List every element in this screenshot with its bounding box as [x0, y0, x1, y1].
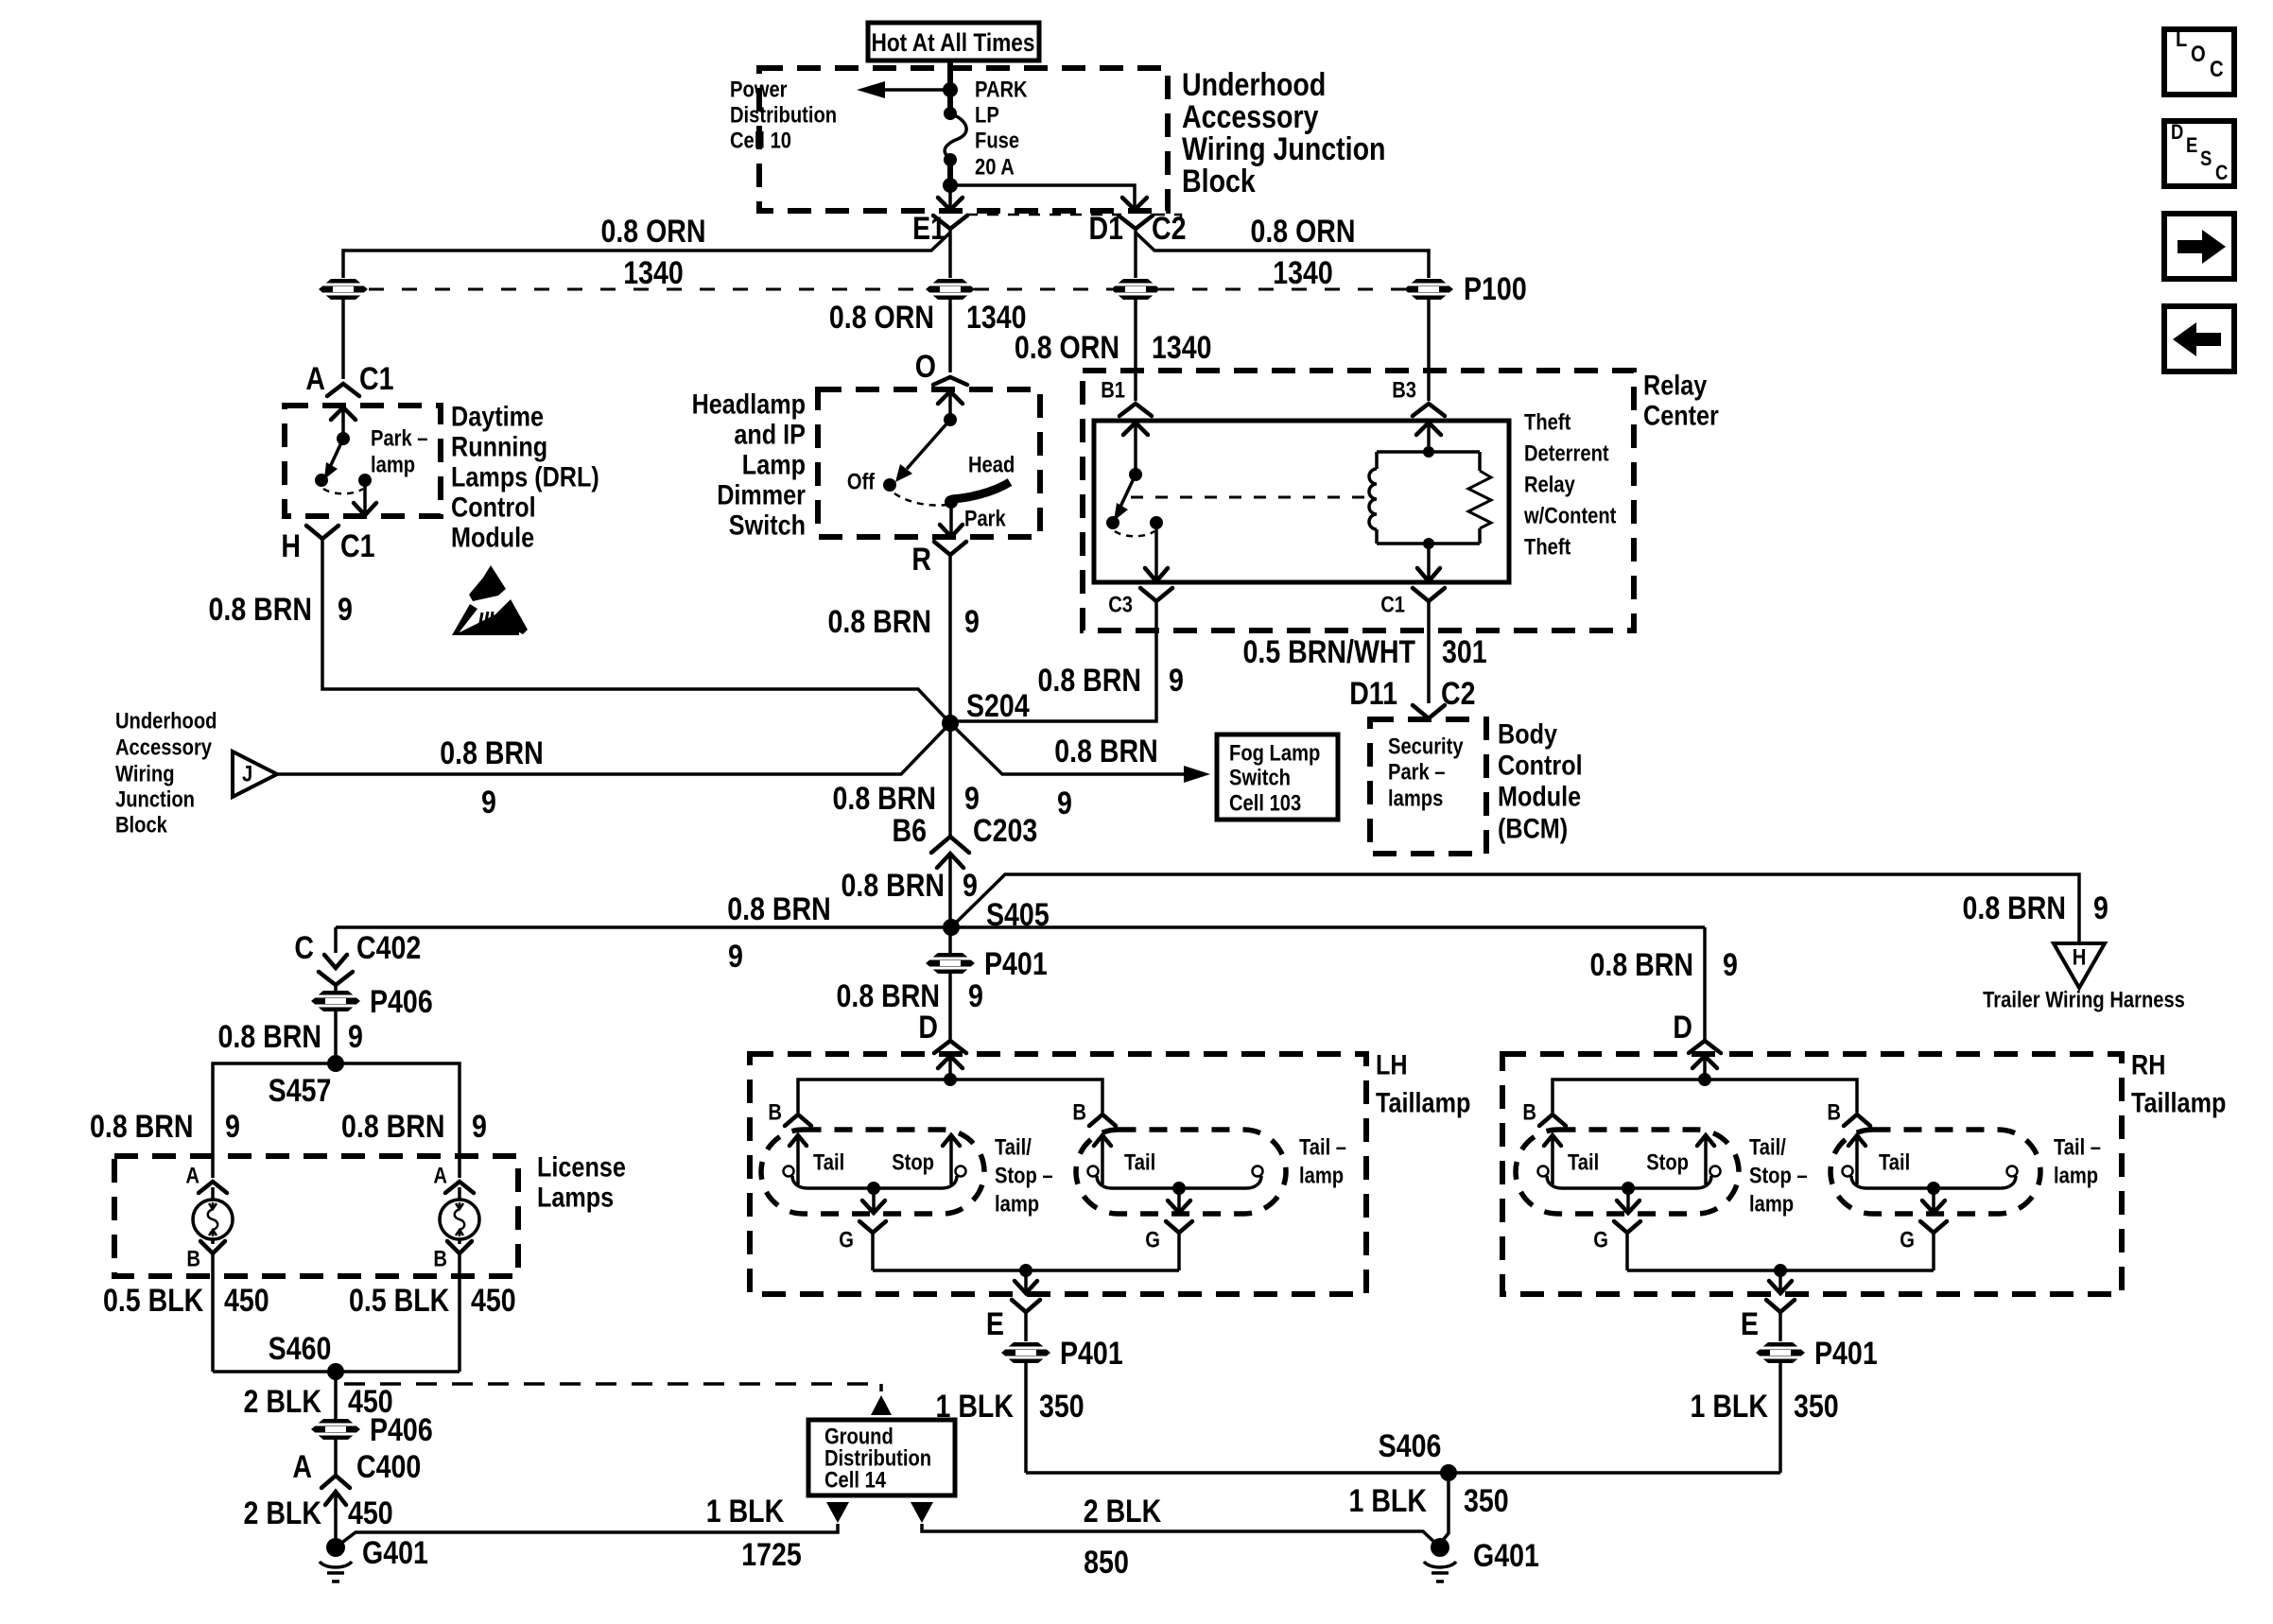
svg-text:1340: 1340	[1273, 255, 1333, 291]
label 0.8 BRN 9 (C3 wire)	[1038, 663, 1184, 699]
svg-text:Tail/: Tail/	[995, 1135, 1032, 1161]
DRL switch	[315, 432, 376, 515]
connector C203 inline	[931, 837, 969, 927]
svg-text:Relay: Relay	[1643, 371, 1708, 402]
svg-text:D11: D11	[1349, 676, 1397, 712]
label 0.8 ORN 1340 (D1 wire)	[1015, 330, 1212, 366]
svg-text:301: 301	[1442, 634, 1487, 670]
terminal D (RH)	[1673, 1010, 1721, 1053]
bulkhead dashed pass-through line	[369, 288, 1405, 291]
svg-text:P406: P406	[370, 1412, 433, 1448]
H triangle trailer harness	[1983, 943, 2185, 1013]
label Tail / Stop (RH bulb1)	[1568, 1150, 1689, 1176]
svg-text:H: H	[2073, 945, 2087, 971]
label 0.8 ORN 1340 (right run)	[1250, 214, 1355, 291]
label 0.8 ORN 1340 (left run)	[600, 214, 705, 291]
terminal G (bulb1)	[839, 1221, 886, 1270]
svg-text:LP: LP	[975, 103, 999, 129]
label 1 BLK 350 (S406-G401)	[1349, 1483, 1509, 1519]
wire fuse output branch right	[950, 185, 1147, 210]
svg-text:Distribution: Distribution	[730, 103, 837, 129]
wire D1 down	[1134, 229, 1137, 278]
svg-text:O: O	[915, 349, 936, 385]
Ground Distribution Cell 14 box	[808, 1420, 955, 1495]
svg-text:9: 9	[225, 1109, 240, 1145]
DRL module dashed box	[285, 406, 441, 516]
svg-text:9: 9	[2093, 890, 2108, 926]
wire P100 down to B3	[1427, 300, 1431, 401]
label 0.8 BRN 9 (P406-S457)	[218, 1019, 363, 1055]
svg-text:D: D	[2171, 120, 2183, 144]
svg-text:S406: S406	[1379, 1428, 1442, 1464]
inline connector (DRL branch)	[319, 279, 368, 300]
label 0.8 BRN 9 (R wire)	[828, 604, 980, 640]
connector P406 (top)	[311, 984, 433, 1020]
terminal G (RH bulb1)	[1593, 1221, 1640, 1270]
svg-text:Relay: Relay	[1524, 473, 1575, 498]
svg-text:Block: Block	[1182, 164, 1256, 199]
svg-text:9: 9	[728, 939, 743, 975]
svg-text:Stop –: Stop –	[1749, 1164, 1808, 1189]
svg-text:Junction: Junction	[115, 787, 195, 813]
svg-text:2 BLK: 2 BLK	[1084, 1494, 1162, 1529]
headlamp dimmer dashed box	[818, 389, 1040, 537]
svg-text:450: 450	[224, 1283, 269, 1319]
svg-text:S457: S457	[269, 1073, 332, 1109]
svg-text:0.8 BRN: 0.8 BRN	[828, 604, 932, 640]
relay switch entry arrow B1	[1123, 423, 1148, 475]
svg-text:Center: Center	[1643, 401, 1719, 432]
svg-text:Lamps: Lamps	[537, 1183, 614, 1214]
terminal D1 / C2	[1089, 211, 1187, 247]
svg-text:w/Content: w/Content	[1523, 504, 1616, 529]
svg-text:Tail: Tail	[1879, 1150, 1910, 1176]
svg-text:Dimmer: Dimmer	[717, 480, 806, 511]
svg-text:Switch: Switch	[729, 510, 806, 542]
svg-text:0.8 BRN: 0.8 BRN	[1963, 890, 2067, 926]
wire E1 to DRL (left run)	[343, 233, 950, 278]
label 0.5 BLK 450 (left)	[103, 1283, 269, 1319]
label 0.8 BRN 9 (J wire)	[440, 735, 544, 821]
label Daytime Running Lamps (DRL) Control Module	[451, 402, 599, 554]
svg-text:0.8 BRN: 0.8 BRN	[209, 592, 313, 628]
dashed line S460 to ground distribution	[344, 1384, 881, 1393]
wire P406 to S457	[334, 1011, 338, 1063]
terminal C1 (relay)	[1380, 588, 1445, 618]
theft deterrent relay solid box	[1094, 421, 1509, 582]
svg-text:1 BLK: 1 BLK	[706, 1494, 785, 1529]
terminal E1	[912, 211, 967, 247]
label Relay Center	[1643, 371, 1719, 432]
svg-text:C402: C402	[356, 930, 421, 966]
connector P100	[1404, 271, 1527, 307]
svg-text:Park: Park	[964, 507, 1006, 532]
svg-text:Block: Block	[115, 813, 167, 838]
relay coil entry arrow B3	[1416, 423, 1441, 450]
svg-text:and IP: and IP	[734, 420, 806, 451]
svg-text:C: C	[2215, 161, 2228, 184]
label 0.8 BRN 9 (S204-C203)	[833, 781, 980, 817]
svg-text:B: B	[768, 1100, 782, 1126]
svg-text:9: 9	[481, 785, 496, 821]
svg-text:1340: 1340	[1152, 330, 1212, 366]
wire S406 bus	[1026, 1471, 1780, 1475]
terminal E (RH)	[1741, 1300, 1795, 1342]
svg-text:1725: 1725	[741, 1537, 802, 1573]
svg-text:Cell 103: Cell 103	[1229, 791, 1301, 817]
svg-text:P401: P401	[984, 946, 1048, 982]
wire G401 to ground distribution (1 BLK 1725)	[336, 1524, 838, 1547]
svg-text:Deterrent: Deterrent	[1524, 441, 1609, 467]
label Headlamp and IP Lamp Dimmer Switch	[692, 389, 807, 542]
terminal B (RH bulb 1)	[1522, 1100, 1566, 1127]
svg-text:G401: G401	[1473, 1538, 1539, 1574]
label PARK LP Fuse 20 A	[975, 78, 1028, 181]
RH tail-lamp bulb (dashed stadium)	[1831, 1130, 2040, 1214]
svg-text:0.8 BRN: 0.8 BRN	[341, 1109, 445, 1145]
svg-text:A: A	[185, 1164, 200, 1189]
label 0.5 BRN/WHT 301	[1243, 634, 1487, 670]
svg-text:Module: Module	[1498, 782, 1581, 813]
wire H down and to S204	[322, 539, 950, 723]
wire S460 down	[334, 1372, 338, 1419]
terminal B (bulb 1)	[768, 1100, 811, 1127]
junction block thin dashed continuation	[966, 215, 1181, 230]
wire S204 down to C203	[948, 723, 952, 836]
ground bus and exit arrow	[873, 1264, 1179, 1293]
svg-text:850: 850	[1084, 1545, 1129, 1581]
svg-text:Cell 10: Cell 10	[730, 129, 791, 154]
bulb2 common and exit arrow	[1097, 1176, 1261, 1213]
svg-text:Taillamp: Taillamp	[2131, 1088, 2226, 1119]
svg-text:Tail –: Tail –	[1299, 1135, 1346, 1161]
svg-text:L: L	[2176, 26, 2187, 52]
svg-text:20 A: 20 A	[975, 155, 1015, 181]
svg-text:C3: C3	[1108, 593, 1133, 618]
svg-text:Trailer Wiring Harness: Trailer Wiring Harness	[1983, 988, 2185, 1013]
svg-text:R: R	[911, 542, 931, 578]
svg-text:Park –: Park –	[371, 426, 428, 452]
RH stop filament	[1697, 1135, 1721, 1184]
ESD static symbol	[452, 565, 528, 635]
wire fuse output down (left branch)	[938, 185, 963, 210]
svg-text:Running: Running	[451, 432, 547, 463]
svg-text:B: B	[186, 1247, 200, 1272]
svg-text:lamp: lamp	[1749, 1192, 1794, 1218]
svg-text:E: E	[2186, 133, 2197, 157]
label License Lamps	[537, 1152, 626, 1214]
splice S406	[1379, 1428, 1457, 1481]
svg-text:0.8 BRN: 0.8 BRN	[440, 735, 544, 771]
wire down to C402	[334, 927, 338, 953]
svg-text:0.8 BRN: 0.8 BRN	[1590, 947, 1694, 983]
svg-text:C1: C1	[340, 528, 375, 564]
label 0.8 BRN 9 (right lamp)	[341, 1109, 487, 1145]
label 1 BLK 350 (RH)	[1691, 1389, 1839, 1425]
svg-text:Wiring: Wiring	[115, 762, 175, 787]
label Tail / Stop (bulb1)	[813, 1150, 934, 1176]
label 2 BLK 850	[1084, 1494, 1162, 1581]
svg-text:Off: Off	[847, 470, 876, 495]
terminal D11 / C2 (BCM)	[1349, 676, 1475, 718]
svg-text:A: A	[305, 361, 325, 397]
svg-text:G: G	[1145, 1228, 1160, 1253]
ground G401 (left)	[320, 1535, 428, 1581]
Hot At All Times box	[868, 23, 1039, 60]
J triangle (Underhood junction block)	[233, 752, 277, 797]
wire S204 to fog lamp switch (arrow)	[950, 723, 1210, 783]
svg-text:Wiring Junction: Wiring Junction	[1182, 131, 1386, 167]
headlamp switch	[883, 413, 1010, 537]
svg-text:Stop: Stop	[892, 1150, 934, 1176]
svg-text:0.8 BRN: 0.8 BRN	[727, 891, 831, 927]
RH ground bus and exit arrow	[1627, 1264, 1934, 1293]
label Underhood Accessory Wiring Junction Block	[1182, 67, 1386, 199]
svg-text:Accessory: Accessory	[1182, 99, 1319, 135]
License Lamps dashed box	[114, 1156, 518, 1276]
wire R down to S204	[948, 555, 952, 723]
connector P406 (bottom)	[311, 1412, 433, 1448]
RH bulb2 common and exit arrow	[1851, 1176, 2016, 1213]
label Fog Lamp Switch Cell 103	[1229, 741, 1320, 817]
label Tail/Stop-lamp	[995, 1135, 1053, 1218]
svg-text:lamp: lamp	[371, 453, 415, 478]
svg-text:Tail: Tail	[813, 1150, 844, 1176]
terminal D (LH)	[918, 1010, 966, 1053]
left license lamp bulb	[193, 1200, 233, 1239]
terminal B (RH bulb 2)	[1827, 1100, 1870, 1127]
svg-text:Headlamp: Headlamp	[692, 389, 806, 421]
svg-text:G: G	[839, 1228, 854, 1253]
LH taillamp dashed box	[750, 1054, 1366, 1294]
svg-text:9: 9	[1169, 663, 1184, 699]
LOC icon box	[2164, 26, 2234, 95]
svg-text:Switch: Switch	[1229, 766, 1291, 791]
svg-text:C1: C1	[359, 361, 394, 397]
svg-text:P401: P401	[1814, 1336, 1878, 1372]
terminal R	[911, 542, 966, 578]
svg-text:9: 9	[1057, 786, 1072, 821]
label Tail-lamp	[1299, 1135, 1346, 1189]
RH tail filament (bulb2)	[1843, 1135, 1866, 1184]
LH entry arrow	[938, 1056, 963, 1080]
svg-text:LH: LH	[1376, 1050, 1408, 1081]
svg-text:Lamp: Lamp	[742, 450, 806, 481]
svg-text:Underhood: Underhood	[115, 709, 217, 734]
svg-text:450: 450	[348, 1495, 393, 1531]
svg-text:9: 9	[964, 781, 980, 817]
terminal A / C1	[305, 361, 393, 397]
wire S457 split to license lamps	[213, 1063, 460, 1178]
terminal B (left lamp)	[186, 1239, 225, 1372]
wire S406 down to G401	[1440, 1473, 1449, 1544]
svg-text:C1: C1	[1380, 593, 1405, 618]
svg-text:0.5 BLK: 0.5 BLK	[349, 1283, 450, 1319]
wire S405 main line (left and right)	[336, 925, 1705, 929]
svg-text:9: 9	[348, 1019, 363, 1055]
label RH Taillamp	[2131, 1050, 2226, 1119]
LH feed bus	[798, 1073, 1102, 1113]
label Theft Deterrent Relay w/Content Theft	[1523, 410, 1616, 561]
svg-text:Control: Control	[1498, 751, 1583, 782]
RH bulb1 common and exit arrow	[1547, 1176, 1711, 1213]
connector P401 (RH E)	[1756, 1336, 1878, 1372]
wire to Power Distribution with left arrow	[857, 81, 950, 98]
splice S405	[943, 897, 1050, 936]
tail-lamp bulb (dashed stadium)	[1076, 1130, 1286, 1214]
svg-text:Theft: Theft	[1524, 410, 1570, 436]
svg-text:9: 9	[1723, 947, 1738, 983]
svg-text:0.8 ORN: 0.8 ORN	[1015, 330, 1119, 366]
label 0.8 BRN 9 (C203-S405)	[842, 868, 978, 904]
label 1 BLK 350 (LH)	[936, 1389, 1084, 1425]
svg-text:Stop: Stop	[1646, 1150, 1689, 1176]
RH entry arrow	[1692, 1056, 1717, 1080]
svg-text:License: License	[537, 1152, 626, 1183]
svg-text:Cell 14: Cell 14	[824, 1468, 887, 1494]
svg-text:0.8 BRN: 0.8 BRN	[833, 781, 937, 817]
connector P401 (LH E)	[1001, 1336, 1123, 1372]
svg-text:0.8 ORN: 0.8 ORN	[1250, 214, 1355, 250]
svg-text:D: D	[918, 1010, 938, 1045]
Fog Lamp Switch box	[1217, 734, 1338, 820]
svg-text:Hot At All Times: Hot At All Times	[871, 28, 1034, 57]
svg-text:Accessory: Accessory	[115, 735, 213, 761]
svg-text:Control: Control	[451, 492, 536, 524]
svg-text:G: G	[1593, 1228, 1608, 1253]
svg-text:0.8 BRN: 0.8 BRN	[218, 1019, 322, 1055]
wire E1 connector down to O	[948, 300, 952, 372]
svg-text:C400: C400	[356, 1449, 421, 1485]
inline connector (E1 wire)	[926, 279, 975, 300]
svg-text:0.8 BRN: 0.8 BRN	[90, 1109, 194, 1145]
svg-text:Daytime: Daytime	[451, 402, 544, 433]
svg-text:9: 9	[968, 978, 983, 1014]
left arrow icon box	[2164, 306, 2234, 371]
svg-text:D: D	[1673, 1010, 1692, 1045]
label Tail-lamp (RH)	[2054, 1135, 2101, 1189]
label Underhood Accessory Wiring Junction Block (left)	[115, 709, 217, 838]
wire C1 down to BCM	[1427, 601, 1431, 703]
wire D1 connector down to B1	[1134, 300, 1137, 401]
wire S405 to trailer harness (upper run)	[951, 874, 2079, 943]
svg-text:B: B	[433, 1247, 447, 1272]
headlamp entry arrow	[938, 391, 963, 420]
svg-text:Head: Head	[968, 453, 1015, 478]
terminal G (RH bulb2)	[1900, 1221, 1947, 1270]
label Park-lamp	[371, 426, 428, 478]
svg-text:2 BLK: 2 BLK	[244, 1384, 322, 1420]
svg-text:lamp: lamp	[995, 1192, 1039, 1218]
bulb1 common and exit arrow	[792, 1176, 957, 1213]
svg-text:E: E	[986, 1306, 1004, 1342]
triangle down (2 BLK 850 termination)	[911, 1502, 933, 1523]
svg-text:P406: P406	[370, 984, 433, 1020]
right arrow icon box	[2164, 214, 2234, 279]
terminal B (right lamp)	[433, 1239, 472, 1372]
label 0.8 BRN 9 (DRL output)	[209, 592, 353, 628]
wire DRL connector down to A	[341, 300, 345, 379]
svg-text:A: A	[433, 1164, 447, 1189]
wire C3 down to S204	[950, 601, 1156, 721]
svg-text:350: 350	[1794, 1389, 1839, 1425]
svg-text:Tail –: Tail –	[2054, 1135, 2101, 1161]
label LH Taillamp	[1376, 1050, 1470, 1119]
label 0.8 BRN 9 (LH D wire)	[837, 978, 983, 1014]
terminal B1	[1101, 378, 1152, 417]
wire J to S204	[277, 723, 950, 774]
svg-text:1 BLK: 1 BLK	[1691, 1389, 1769, 1425]
tail/stop bulb (dashed stadium)	[761, 1130, 984, 1214]
svg-text:G: G	[1900, 1228, 1915, 1253]
svg-text:lamp: lamp	[2054, 1164, 2098, 1189]
svg-text:0.8 ORN: 0.8 ORN	[600, 214, 705, 250]
fuse PARK LP 20A	[943, 62, 966, 193]
label 0.5 BLK 450 (right)	[349, 1283, 516, 1319]
splice S457	[269, 1055, 344, 1109]
svg-text:B: B	[1522, 1100, 1536, 1126]
DESC icon box	[2164, 120, 2234, 186]
label 2 BLK 450 (S460-P406)	[244, 1384, 393, 1420]
svg-text:lamp: lamp	[1299, 1164, 1344, 1189]
svg-text:Tail/: Tail/	[1749, 1135, 1786, 1161]
terminal A / C400	[292, 1440, 421, 1547]
svg-text:E: E	[1741, 1306, 1759, 1342]
svg-text:0.8 BRN: 0.8 BRN	[842, 868, 946, 904]
svg-text:S460: S460	[269, 1331, 332, 1367]
svg-text:0.8 BRN: 0.8 BRN	[1038, 663, 1142, 699]
label 0.8 BRN 9 (left lamp)	[90, 1109, 240, 1145]
terminal E	[986, 1300, 1040, 1342]
svg-text:PARK: PARK	[975, 78, 1028, 103]
label Tail/Stop-lamp (RH)	[1749, 1135, 1808, 1218]
svg-text:lamps: lamps	[1388, 786, 1443, 812]
svg-text:RH: RH	[2131, 1050, 2165, 1081]
label Security Park-lamps	[1388, 734, 1464, 812]
svg-text:9: 9	[338, 592, 353, 628]
svg-text:J: J	[242, 762, 252, 787]
terminal A (right lamp)	[433, 1164, 474, 1201]
right license lamp bulb	[440, 1200, 479, 1239]
svg-text:S204: S204	[966, 688, 1030, 724]
RH bulb2 support circle	[2007, 1166, 2018, 1177]
svg-text:Module: Module	[451, 523, 534, 554]
svg-text:D1: D1	[1089, 211, 1124, 247]
svg-text:9: 9	[472, 1109, 487, 1145]
svg-text:Lamps (DRL): Lamps (DRL)	[451, 462, 599, 493]
svg-text:Taillamp: Taillamp	[1376, 1088, 1470, 1119]
label 0.8 BRN 9 (trailer wire)	[1963, 890, 2108, 926]
svg-text:1340: 1340	[623, 255, 684, 291]
terminal H / C1	[281, 526, 374, 564]
svg-text:P100: P100	[1464, 271, 1527, 307]
wire E1 down	[948, 229, 952, 278]
wire LH E down to S406	[1024, 1363, 1028, 1473]
wire S405 down to LH D	[948, 927, 952, 1041]
svg-text:S: S	[2200, 147, 2212, 170]
svg-text:C203: C203	[973, 813, 1037, 849]
svg-text:G401: G401	[362, 1535, 428, 1571]
splice S204	[942, 688, 1030, 732]
svg-text:Underhood: Underhood	[1182, 67, 1326, 103]
svg-text:Park –: Park –	[1388, 760, 1446, 786]
relay pull-in dashed link	[1131, 496, 1373, 499]
label Body Control Module (BCM)	[1498, 719, 1583, 845]
triangle down (1 BLK 1725 termination)	[826, 1502, 849, 1523]
terminal C3	[1108, 588, 1172, 618]
label 1 BLK 1725	[706, 1494, 802, 1573]
svg-text:H: H	[281, 528, 301, 564]
